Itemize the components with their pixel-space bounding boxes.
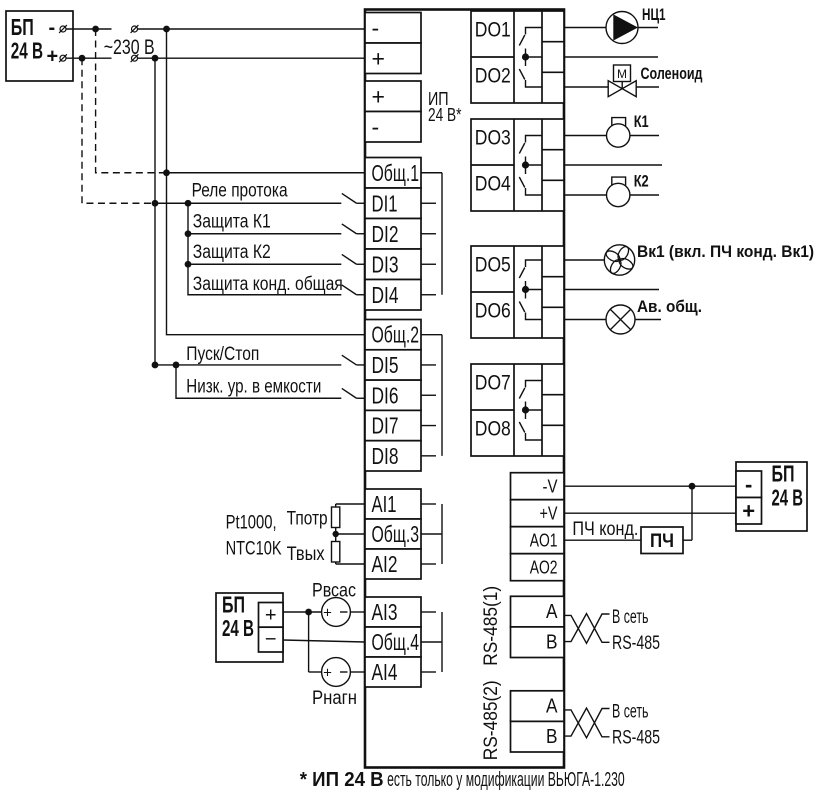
svg-text:Защита К1: Защита К1	[193, 211, 271, 232]
svg-text:М: М	[617, 67, 627, 81]
svg-text:-: -	[372, 15, 380, 41]
svg-text:К1: К1	[634, 112, 649, 131]
svg-text:AI4: AI4	[372, 659, 398, 685]
svg-text:+V: +V	[540, 503, 558, 523]
svg-text:+: +	[47, 46, 59, 68]
svg-text:DO3: DO3	[475, 126, 511, 150]
svg-text:Общ.4: Общ.4	[372, 629, 420, 655]
svg-text:24 В: 24 В	[11, 37, 43, 63]
svg-text:NTC10K: NTC10K	[226, 539, 282, 560]
svg-text:-: -	[49, 17, 56, 39]
svg-text:Твых: Твых	[287, 543, 325, 565]
svg-text:Pt1000,: Pt1000,	[226, 513, 277, 534]
svg-text:+: +	[265, 605, 277, 627]
svg-text:Реле протока: Реле протока	[192, 181, 288, 202]
svg-text:24 В: 24 В	[222, 615, 254, 641]
svg-text:К2: К2	[634, 172, 649, 191]
svg-text:DI4: DI4	[372, 282, 399, 308]
svg-text:БП: БП	[222, 592, 245, 618]
svg-text:24 В*: 24 В*	[428, 104, 461, 125]
svg-text:Рвсас: Рвсас	[312, 581, 356, 602]
svg-text:DO8: DO8	[475, 417, 511, 441]
svg-text:DO1: DO1	[475, 18, 511, 42]
svg-text:А: А	[546, 694, 558, 717]
svg-text:БП: БП	[772, 460, 795, 486]
svg-text:AI2: AI2	[372, 551, 398, 577]
svg-text:DI8: DI8	[372, 443, 399, 469]
svg-text:Тпотр: Тпотр	[287, 508, 328, 530]
svg-text:DI1: DI1	[372, 190, 398, 216]
svg-text:Общ.2: Общ.2	[372, 322, 420, 348]
svg-text:ПЧ конд.: ПЧ конд.	[572, 519, 638, 540]
svg-text:+: +	[323, 605, 332, 622]
svg-text:-V: -V	[543, 476, 558, 496]
svg-text:-: -	[372, 114, 380, 140]
svg-text:AO2: AO2	[530, 557, 558, 577]
svg-text:RS-485: RS-485	[612, 633, 660, 654]
svg-text:RS-485(2): RS-485(2)	[481, 680, 502, 760]
svg-text:DO7: DO7	[475, 371, 511, 395]
svg-text:DI5: DI5	[372, 352, 399, 378]
svg-text:−: −	[265, 629, 277, 651]
svg-text:DI2: DI2	[372, 221, 399, 247]
svg-text:* ИП 24 В есть только у модифи: * ИП 24 В есть только у модификации ВЬЮГ…	[300, 769, 625, 791]
svg-text:24 В: 24 В	[772, 485, 804, 511]
svg-text:~230 В: ~230 В	[104, 36, 155, 59]
svg-text:Низк. ур. в емкости: Низк. ур. в емкости	[186, 377, 321, 398]
svg-text:-: -	[745, 472, 752, 497]
svg-text:В сеть: В сеть	[612, 702, 649, 723]
svg-text:AI1: AI1	[372, 491, 397, 517]
svg-text:А: А	[546, 600, 558, 623]
svg-text:Пуск/Стоп: Пуск/Стоп	[186, 344, 259, 365]
svg-text:Соленоид: Соленоид	[641, 64, 703, 83]
svg-text:+: +	[742, 499, 755, 524]
svg-text:DI3: DI3	[372, 251, 399, 277]
svg-text:Защита К2: Защита К2	[193, 242, 271, 263]
svg-text:AI3: AI3	[372, 599, 398, 625]
svg-text:+: +	[323, 665, 332, 682]
svg-text:RS-485: RS-485	[612, 728, 660, 749]
svg-text:+: +	[372, 83, 385, 109]
svg-text:Общ.3: Общ.3	[372, 521, 420, 547]
svg-text:+: +	[372, 45, 385, 71]
svg-text:Общ.1: Общ.1	[372, 160, 420, 186]
svg-text:Защита конд. общая: Защита конд. общая	[193, 274, 343, 295]
svg-text:AO1: AO1	[530, 530, 558, 550]
svg-text:DO4: DO4	[475, 172, 511, 196]
svg-text:DO5: DO5	[475, 253, 511, 277]
svg-text:Вк1 (вкл. ПЧ конд. Вк1): Вк1 (вкл. ПЧ конд. Вк1)	[637, 242, 814, 261]
svg-text:НЦ1: НЦ1	[642, 5, 666, 24]
svg-text:DO2: DO2	[475, 64, 511, 88]
svg-text:DI6: DI6	[372, 382, 399, 408]
svg-text:В: В	[546, 725, 558, 748]
svg-text:В: В	[546, 630, 558, 653]
svg-text:В сеть: В сеть	[612, 607, 649, 628]
svg-text:БП: БП	[11, 14, 34, 40]
svg-text:DO6: DO6	[475, 299, 511, 323]
svg-text:Рнагн: Рнагн	[312, 688, 357, 709]
svg-text:Ав. общ.: Ав. общ.	[637, 297, 702, 316]
svg-text:DI7: DI7	[372, 413, 399, 439]
svg-text:ПЧ: ПЧ	[650, 531, 674, 552]
svg-text:RS-485(1): RS-485(1)	[481, 586, 502, 666]
